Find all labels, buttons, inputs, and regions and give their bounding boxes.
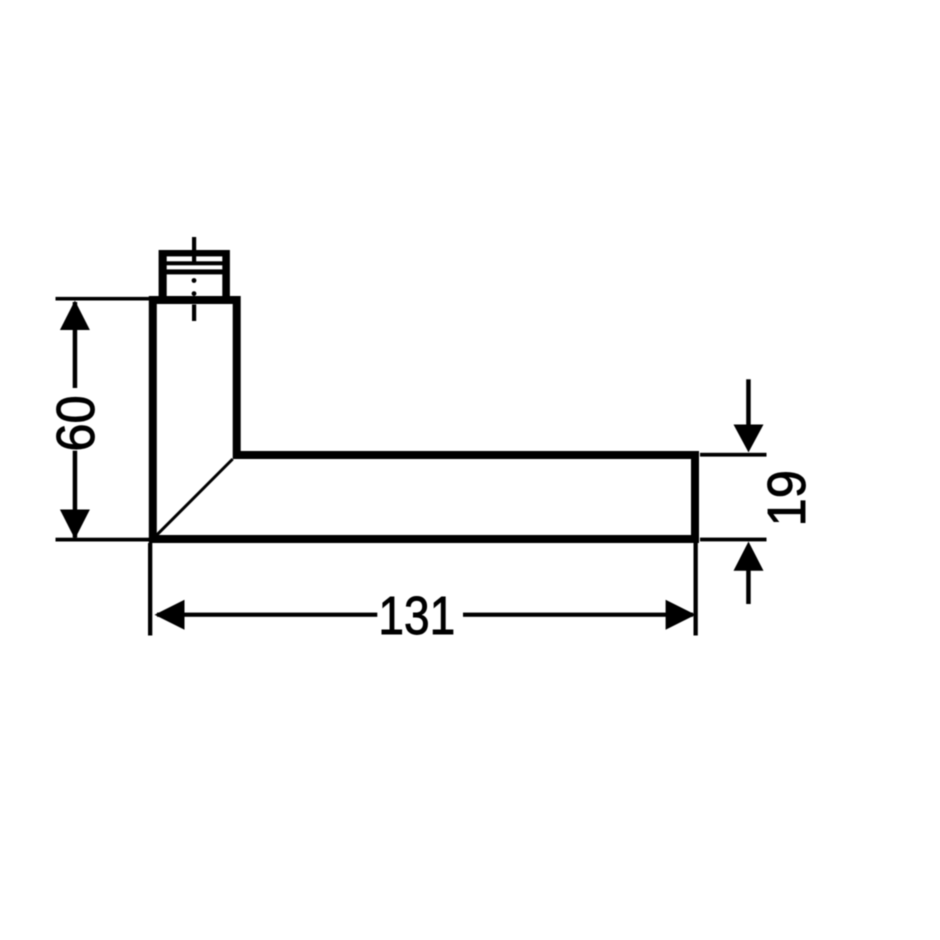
svg-text:19: 19	[758, 470, 818, 526]
dim60 bottom extension line	[56, 538, 153, 542]
collar white interior	[167, 274, 223, 296]
dim60 line upper segment	[73, 302, 78, 388]
centerline dot 2	[192, 291, 197, 296]
dim60 arrow down	[60, 510, 90, 540]
dim19 arrow down	[734, 425, 764, 453]
dim19 arrow up	[734, 542, 764, 571]
collar white groove 2	[167, 265, 223, 269]
dim131 right extension line	[694, 543, 698, 636]
dim131 left extension line	[148, 543, 152, 636]
svg-text:60: 60	[47, 395, 107, 451]
centerline top dash	[192, 237, 196, 262]
svg-text:131: 131	[378, 586, 455, 646]
dim19 upper shaft	[746, 379, 751, 426]
miter diagonal at elbow	[156, 459, 233, 536]
dim131 arrow right	[666, 600, 696, 630]
dim60 top extension line	[56, 297, 156, 301]
centerline bottom dash	[192, 305, 196, 322]
centerline dot 1	[192, 278, 197, 283]
dim60 line lower segment	[73, 451, 78, 538]
dim60 arrow up	[60, 301, 90, 331]
handle L-shaped body outline	[153, 300, 695, 539]
dim131 arrow left	[155, 600, 185, 630]
dim131 line left segment	[157, 613, 377, 617]
dim131 line right segment	[463, 613, 693, 617]
dim19 bottom extension line	[700, 538, 767, 542]
dim19 lower shaft	[746, 569, 751, 604]
dim19 top extension line	[700, 453, 767, 457]
spindle collar block	[159, 250, 230, 300]
collar white groove 1	[167, 256, 223, 261]
